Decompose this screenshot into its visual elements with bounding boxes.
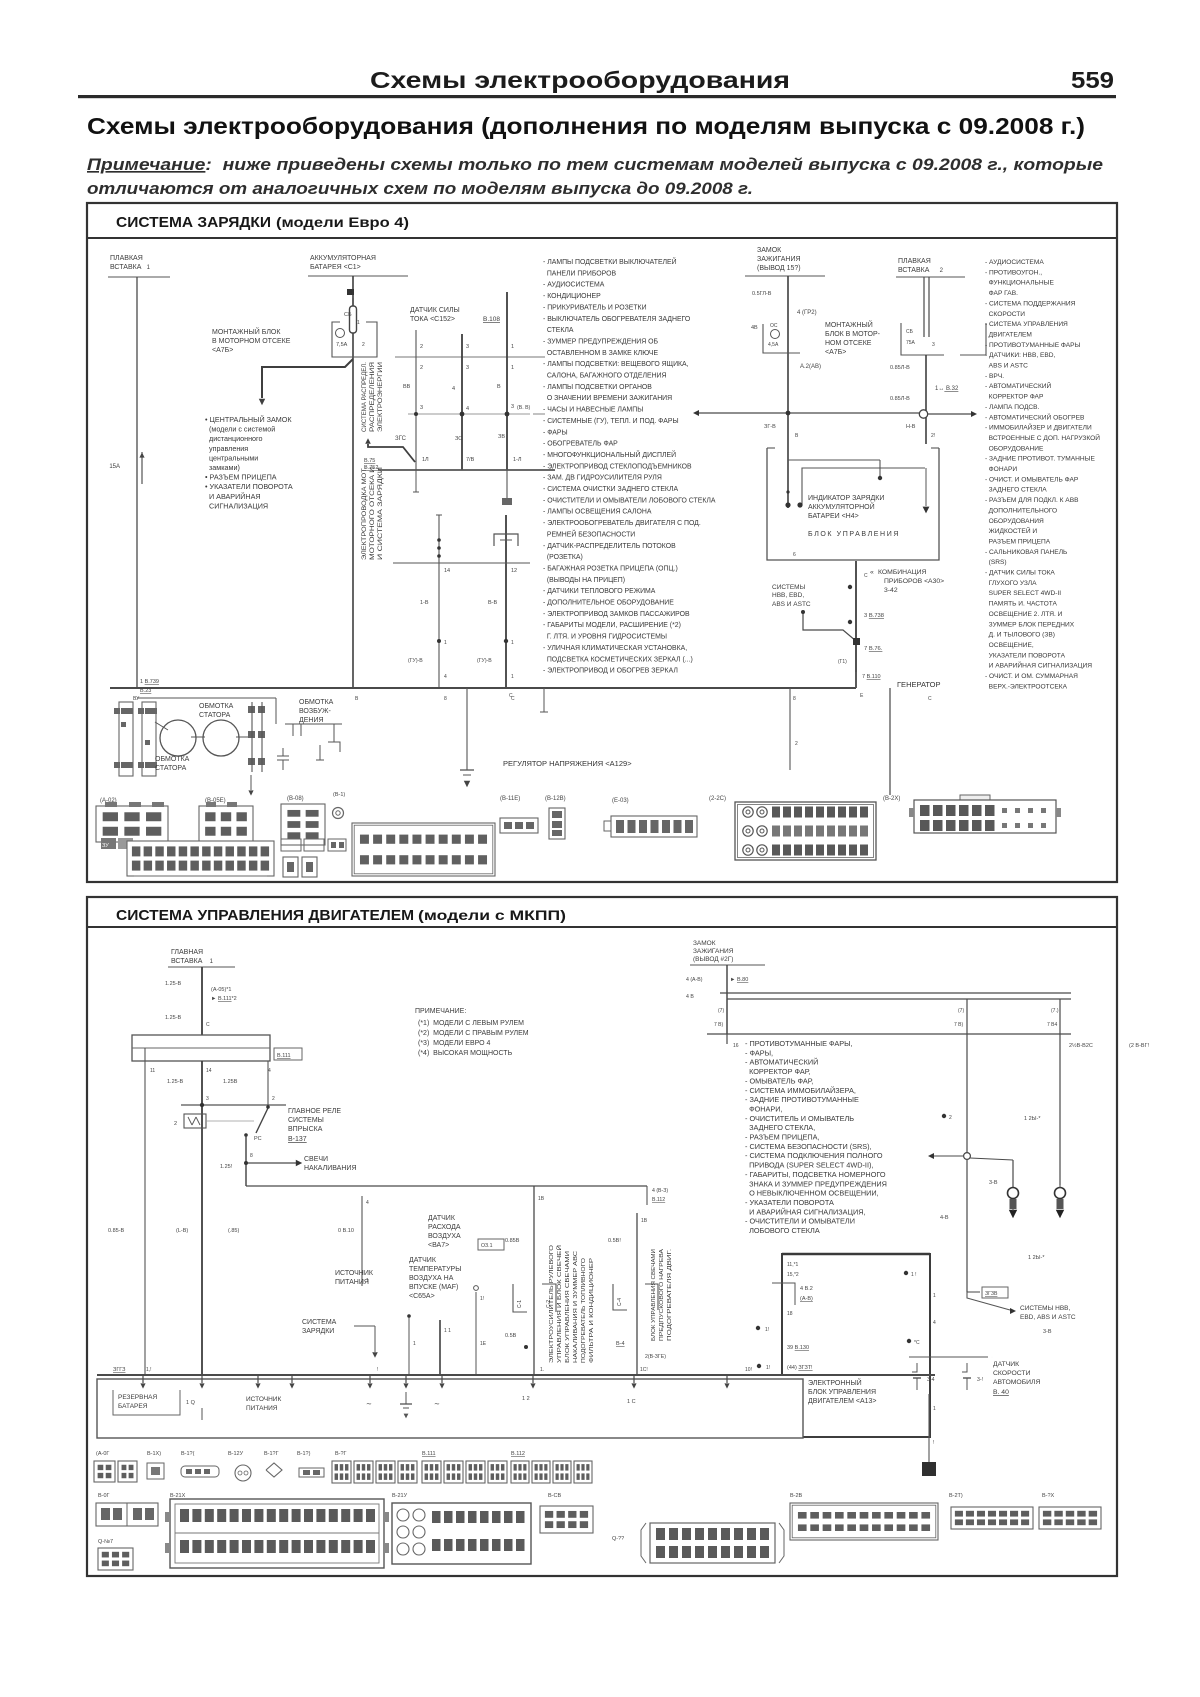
- svg-text:- ПРОТИВОУГОН.,: - ПРОТИВОУГОН.,: [985, 269, 1042, 276]
- svg-text:- РАЗЪЕМ ПРИЦЕПА,: - РАЗЪЕМ ПРИЦЕПА,: [745, 1133, 820, 1142]
- svg-text:- ПРИКУРИВАТЕЛЬ И РОЗЕТКИ: - ПРИКУРИВАТЕЛЬ И РОЗЕТКИ: [543, 304, 647, 311]
- power source stub: [361, 1196, 363, 1286]
- svg-text:3-В: 3-В: [989, 1180, 998, 1186]
- svg-text:(7): (7): [958, 1008, 964, 1014]
- svg-text:(*4) ВЫСОКАЯ МОЩНОСТЬ: (*4) ВЫСОКАЯ МОЩНОСТЬ: [418, 1050, 513, 1057]
- svg-text:ЗАДНЕГО СТЕКЛА: ЗАДНЕГО СТЕКЛА: [985, 487, 1047, 494]
- svg-text:- ЭЛЕКТРООБОГРЕВАТЕЛЬ ДВИГАТЕЛ: - ЭЛЕКТРООБОГРЕВАТЕЛЬ ДВИГАТЕЛЯ С ПОД.: [543, 520, 701, 527]
- svg-text:4,5А: 4,5А: [768, 342, 779, 348]
- svg-text:(В-12В): (В-12В): [545, 796, 566, 802]
- svg-text:ОБМОТКА: ОБМОТКА: [155, 756, 190, 763]
- svg-text:3-42: 3-42: [884, 587, 898, 594]
- svg-text:ЗГЗВ: ЗГЗВ: [985, 1291, 998, 1297]
- svg-text:ОБОРУДОВАНИЕ: ОБОРУДОВАНИЕ: [985, 445, 1044, 452]
- ground stub left generator: [250, 775, 252, 790]
- svg-text:3 В.738: 3 В.738: [864, 613, 884, 619]
- mounting block bracket left: [332, 322, 344, 357]
- svg-text:ЗГ-В: ЗГ-В: [764, 424, 776, 430]
- svg-text:- ОЧИСТ. И ОМ. СУММАРНАЯ: - ОЧИСТ. И ОМ. СУММАРНАЯ: [985, 673, 1078, 680]
- row2 connector E2: [540, 1506, 593, 1533]
- sensor grid top bus: [395, 356, 545, 358]
- svg-text:КОРРЕКТОР ФАР: КОРРЕКТОР ФАР: [985, 394, 1044, 401]
- svg-text:SUPER SELECT 4WD-II: SUPER SELECT 4WD-II: [985, 590, 1061, 597]
- svg-text:ВЕРХ.-ЭЛЕКТРООТСЕКА: ВЕРХ.-ЭЛЕКТРООТСЕКА: [985, 683, 1068, 690]
- svg-text:СВЕЧИ: СВЕЧИ: [304, 1156, 328, 1163]
- svg-text:ФОНАРИ: ФОНАРИ: [985, 466, 1017, 473]
- svg-text:- ВЫКЛЮЧАТЕЛЬ ОБОГРЕВАТЕЛЯ ЗАД: - ВЫКЛЮЧАТЕЛЬ ОБОГРЕВАТЕЛЯ ЗАДНЕГО: [543, 316, 691, 323]
- svg-text:СИСТЕМЫ: СИСТЕМЫ: [288, 1117, 324, 1124]
- connector small pair 1: [281, 839, 301, 851]
- row2 connector B2: [98, 1548, 133, 1570]
- svg-text:0.85Л-В: 0.85Л-В: [890, 365, 910, 371]
- diode symbol: [333, 724, 335, 742]
- svg-text:В-В: В-В: [488, 600, 498, 606]
- wire x967 lower segment: [966, 1159, 968, 1292]
- svg-text:СКОРОСТИ: СКОРОСТИ: [985, 311, 1025, 318]
- svg-text:ПИТАНИЯ: ПИТАНИЯ: [246, 1405, 278, 1412]
- srs branch arrow: [934, 1155, 963, 1157]
- svg-text:ОСТАВЛЕННОМ В ЗАМКЕ КЛЮЧЕ: ОСТАВЛЕННОМ В ЗАМКЕ КЛЮЧЕ: [543, 350, 659, 357]
- svg-text:- ОЧИСТИТЕЛЬ И ОМЫВАТЕЛЬ: - ОЧИСТИТЕЛЬ И ОМЫВАТЕЛЬ: [745, 1114, 854, 1123]
- charging system title separator: [87, 237, 1117, 239]
- wire main vertical to relay: [201, 1061, 203, 1375]
- svg-text:- АУДИОСИСТЕМА: - АУДИОСИСТЕМА: [543, 282, 605, 289]
- svg-text:С: С: [509, 693, 513, 699]
- svg-text:*С: *С: [914, 1340, 920, 1346]
- row1 connector f: [266, 1463, 282, 1477]
- svg-text:СТЕКЛА: СТЕКЛА: [543, 327, 574, 334]
- connector big mid: [352, 823, 495, 876]
- svg-text:(модели Евро 4): (модели Евро 4): [276, 215, 409, 230]
- svg-text:БАТАРЕИ <Н4>: БАТАРЕИ <Н4>: [808, 513, 859, 520]
- svg-text:В.112: В.112: [511, 1451, 525, 1457]
- svg-text:- ПРОТИВОТУМАННЫЕ ФАРЫ,: - ПРОТИВОТУМАННЫЕ ФАРЫ,: [745, 1039, 853, 1048]
- svg-text:АВТОМОБИЛЯ: АВТОМОБИЛЯ: [993, 1379, 1041, 1386]
- lower v2 resistor bracket: [494, 534, 518, 546]
- svg-text:ГЛАВНОЕ РЕЛЕ: ГЛАВНОЕ РЕЛЕ: [288, 1108, 341, 1115]
- fusebox right tag: [274, 1048, 302, 1060]
- ecu inner dots right: [904, 1271, 908, 1275]
- svg-text:БЛОК УПРАВЛЕНИЯ СВЕЧАМИ: БЛОК УПРАВЛЕНИЯ СВЕЧАМИ: [651, 1249, 657, 1341]
- svg-text:- СИСТЕМА ИММОБИЛАЙЗЕРА,: - СИСТЕМА ИММОБИЛАЙЗЕРА,: [745, 1086, 856, 1095]
- backup battery label: [113, 1390, 180, 1415]
- svg-text:БЛОК УПРАВЛЕНИЯ: БЛОК УПРАВЛЕНИЯ: [808, 531, 900, 538]
- svg-text:УПРАВЛЕНИЯ И БЛОК СВЕЧЕЙ: УПРАВЛЕНИЯ И БЛОК СВЕЧЕЙ: [555, 1245, 563, 1363]
- speed sensor T2: [962, 1363, 967, 1372]
- svg-text:1: 1: [933, 1406, 936, 1412]
- svg-text:3: 3: [206, 1096, 209, 1102]
- svg-text:∼: ∼: [434, 1401, 440, 1408]
- svg-text:ЗНАКА И ЗУММЕР ПРЕДУПРЕЖДЕНИЯ: ЗНАКА И ЗУММЕР ПРЕДУПРЕЖДЕНИЯ: [745, 1179, 887, 1188]
- svg-text:НОМ ОТСЕКЕ: НОМ ОТСЕКЕ: [825, 340, 872, 347]
- svg-text:- УКАЗАТЕЛИ ПОВОРОТА: - УКАЗАТЕЛИ ПОВОРОТА: [745, 1198, 834, 1207]
- svg-text:В.752: В.752: [364, 465, 378, 471]
- consumer list right column: [985, 259, 1100, 690]
- svg-text:А.2(АВ): А.2(АВ): [800, 364, 821, 370]
- svg-text:В-1?Г: В-1?Г: [264, 1451, 279, 1457]
- rail drop stubs with tags: [726, 999, 728, 1034]
- svg-text:1: 1: [208, 959, 214, 965]
- svg-text:- ГАБАРИТЫ, ПОДСВЕТКА НОМЕРНОГ: - ГАБАРИТЫ, ПОДСВЕТКА НОМЕРНОГО: [745, 1170, 886, 1179]
- wire sensor v2: [461, 334, 463, 470]
- svg-text:4В: 4В: [751, 325, 758, 331]
- svg-text:БАТАРЕЯ <С1>: БАТАРЕЯ <С1>: [310, 264, 361, 271]
- svg-text:(А-05)*1: (А-05)*1: [211, 987, 231, 993]
- stub below grid v1: [415, 470, 417, 492]
- svg-text:- ДАТЧИКИ ТЕПЛОВОГО РЕЖИМА: - ДАТЧИКИ ТЕПЛОВОГО РЕЖИМА: [543, 588, 656, 595]
- svg-text:ЗУММЕР БЛОК ПЕРЕДНИХ: ЗУММЕР БЛОК ПЕРЕДНИХ: [985, 621, 1075, 628]
- excitation winding symbol: [285, 723, 342, 725]
- wire battery vertical: [352, 276, 354, 688]
- wire drop 967 continues: [991, 1356, 993, 1358]
- field circuit wires: [275, 698, 277, 724]
- svg-text:1!: 1!: [766, 1365, 770, 1371]
- svg-text:БЛОК В МОТОР-: БЛОК В МОТОР-: [825, 331, 881, 338]
- ignition fuse symbol: [771, 330, 780, 339]
- svg-text:управления: управления: [205, 444, 248, 453]
- wire meter main vertical: [855, 561, 857, 688]
- row1 group j: [511, 1461, 529, 1483]
- svg-text:1: 1: [933, 1293, 936, 1299]
- svg-text:КОМБИНАЦИЯ: КОМБИНАЦИЯ: [878, 569, 927, 576]
- svg-text:1-В: 1-В: [420, 600, 429, 606]
- svg-text:12: 12: [511, 568, 517, 574]
- ignition fuse bracket left: [763, 324, 800, 353]
- svg-text:- ГАБАРИТЫ МОДЕЛИ, РАСШИРЕНИЕ: - ГАБАРИТЫ МОДЕЛИ, РАСШИРЕНИЕ (*2): [543, 622, 681, 629]
- svg-text:15,*2: 15,*2: [787, 1272, 799, 1278]
- svg-text:ДАТЧИК СИЛЫ: ДАТЧИК СИЛЫ: [410, 307, 460, 314]
- svg-text:14: 14: [206, 1068, 212, 1074]
- svg-text:11: 11: [150, 1068, 155, 1074]
- svg-text:(В-08): (В-08): [287, 796, 304, 802]
- svg-text:(*1) МОДЕЛИ С ЛЕВЫМ РУЛЕМ: (*1) МОДЕЛИ С ЛЕВЫМ РУЛЕМ: [418, 1020, 524, 1027]
- svg-text:2: 2: [362, 342, 365, 348]
- relay output horizontal rail: [246, 1185, 647, 1187]
- svg-text:18: 18: [787, 1311, 793, 1317]
- svg-text:4: 4: [933, 1320, 936, 1326]
- svg-text:3-В: 3-В: [1043, 1329, 1052, 1335]
- connector wide right: [960, 795, 990, 802]
- ecu outline: [782, 1254, 930, 1437]
- svg-text:ДВИГАТЕЛЕМ <А13>: ДВИГАТЕЛЕМ <А13>: [808, 1398, 877, 1405]
- svg-text:► В.80: ► В.80: [730, 977, 748, 983]
- svg-text:БЛОК УПРАВЛЕНИЯ: БЛОК УПРАВЛЕНИЯ: [808, 1389, 876, 1396]
- generator connector left 2: [142, 702, 156, 776]
- svg-text:В. 40: В. 40: [993, 1389, 1009, 1396]
- junction battery node: [347, 289, 354, 295]
- svg-text:ЗАЖИГАНИЯ: ЗАЖИГАНИЯ: [693, 948, 734, 955]
- fuse arrow symbol: [141, 452, 143, 484]
- svg-text:- ЭЛЕКТРОПРИВОД СТЕКЛОПОДЪЕМНИ: - ЭЛЕКТРОПРИВОД СТЕКЛОПОДЪЕМНИКОВ: [543, 463, 692, 470]
- connector long strip: [127, 841, 274, 876]
- wire left feed to bus: [144, 1048, 146, 1375]
- svg-text:4 (ГР2): 4 (ГР2): [797, 310, 817, 316]
- svg-text:(*3) МОДЕЛИ ЕВРО 4: (*3) МОДЕЛИ ЕВРО 4: [418, 1040, 491, 1047]
- ground symbol below bus: [466, 688, 468, 770]
- svg-text:1В: 1В: [641, 1218, 648, 1224]
- wire sensor v1: [415, 330, 417, 470]
- svg-text:8: 8: [250, 1153, 253, 1159]
- svg-text:ФИЛЬТРА И КОНДИЦИОНЕР: ФИЛЬТРА И КОНДИЦИОНЕР: [589, 1258, 595, 1363]
- svg-text:10!: 10!: [745, 1367, 752, 1373]
- svg-text:- ОЧИСТИТЕЛИ И ОМЫВАТЕЛИ: - ОЧИСТИТЕЛИ И ОМЫВАТЕЛИ: [745, 1217, 855, 1226]
- svg-text:ВУ: ВУ: [133, 696, 140, 702]
- svg-text:ПАНЕЛИ ПРИБОРОВ: ПАНЕЛИ ПРИБОРОВ: [543, 270, 616, 277]
- svg-text:МОТОРНОГО ОТСЕКА И: МОТОРНОГО ОТСЕКА И: [369, 467, 376, 560]
- row2 connector F2: [641, 1523, 784, 1563]
- svg-text:2½В-В2С: 2½В-В2С: [1069, 1042, 1093, 1049]
- wire lower v2: [505, 515, 507, 688]
- wire sensor v3: [506, 292, 508, 470]
- svg-text:В.112: В.112: [652, 1197, 665, 1203]
- svg-text:В-4: В-4: [616, 1341, 625, 1347]
- svg-text:АККУМУЛЯТОРНАЯ: АККУМУЛЯТОРНАЯ: [310, 255, 376, 262]
- svg-text:- СИСТЕМА УПРАВЛЕНИЯ: - СИСТЕМА УПРАВЛЕНИЯ: [985, 321, 1068, 328]
- svg-text:ЗАРЯДКИ: ЗАРЯДКИ: [302, 1328, 334, 1335]
- svg-text:0.85Л-В: 0.85Л-В: [890, 396, 910, 402]
- svg-text:1Е: 1Е: [480, 1341, 487, 1347]
- sensor bracket 1: [513, 1284, 527, 1312]
- svg-text:1Л: 1Л: [422, 457, 429, 463]
- stub below grid v3 with terminal: [506, 470, 508, 498]
- wire drop x967: [966, 1034, 968, 1150]
- stator winding circle 1: [160, 720, 196, 756]
- right fuse bracket: [901, 323, 944, 355]
- svg-text:2: 2: [272, 1096, 275, 1102]
- svg-text:дистанционного: дистанционного: [205, 434, 263, 443]
- svg-text:- СИСТЕМА БЕЗОПАСНОСТИ (SRS),: - СИСТЕМА БЕЗОПАСНОСТИ (SRS),: [745, 1142, 872, 1151]
- svg-text:ИНДИКАТОР ЗАРЯДКИ: ИНДИКАТОР ЗАРЯДКИ: [808, 495, 884, 502]
- svg-text:(В-2Х): (В-2Х): [883, 796, 900, 802]
- svg-text:ИСТОЧНИК: ИСТОЧНИК: [246, 1396, 281, 1403]
- row2 connector I2: [1039, 1507, 1101, 1529]
- row1 connector a: [94, 1461, 115, 1482]
- svg-text:2: 2: [795, 741, 798, 747]
- svg-text:ЕВD, АВS И АSТС: ЕВD, АВS И АSТС: [1020, 1314, 1076, 1321]
- speed sensor rail: [909, 1356, 988, 1358]
- svg-text:4 В: 4 В: [686, 994, 694, 1000]
- svg-text:ВСТАВКА: ВСТАВКА: [110, 264, 142, 271]
- row1 group i: [422, 1461, 441, 1483]
- svg-text:2: 2: [420, 365, 423, 371]
- svg-text:ЗУ: ЗУ: [102, 843, 109, 849]
- svg-text:ДЕНИЯ: ДЕНИЯ: [299, 717, 324, 724]
- capacitor symbol: [277, 755, 289, 757]
- regulator sense stub: [543, 688, 545, 712]
- svg-text:В МОТОРНОМ ОТСЕКЕ: В МОТОРНОМ ОТСЕКЕ: [212, 338, 291, 345]
- generator connector left 1: [119, 702, 133, 776]
- svg-text:2: 2: [949, 1115, 952, 1121]
- svg-text:РС: РС: [254, 1136, 262, 1142]
- svg-text:ПАМЯТЬ И. ЧАСТОТА: ПАМЯТЬ И. ЧАСТОТА: [985, 601, 1058, 608]
- connector tall B-12: [549, 808, 565, 839]
- svg-text:СИГНАЛИЗАЦИЯ: СИГНАЛИЗАЦИЯ: [205, 501, 268, 510]
- winding connection lines: [155, 722, 168, 730]
- svg-text:В-21Х: В-21Х: [170, 1493, 186, 1499]
- svg-text:1В: 1В: [538, 1196, 545, 1202]
- svg-text:2: 2: [174, 1121, 177, 1127]
- svg-text:ЭЛЕКТРОЭНЕРГИИ: ЭЛЕКТРОЭНЕРГИИ: [377, 362, 384, 432]
- svg-text:2: 2: [420, 344, 423, 350]
- svg-text:ФУНКЦИОНАЛЬНЫЕ: ФУНКЦИОНАЛЬНЫЕ: [985, 280, 1054, 287]
- svg-text:СТАТОРА: СТАТОРА: [199, 712, 231, 719]
- indicator arrow: [923, 507, 930, 514]
- svg-text:НАКАЛИВАНИЯ: НАКАЛИВАНИЯ: [304, 1165, 357, 1172]
- svg-text:(В-11Е): (В-11Е): [500, 796, 520, 802]
- svg-text:1 2: 1 2: [522, 1396, 530, 1402]
- svg-text:- СИСТЕМА ПОДДЕРЖАНИЯ: - СИСТЕМА ПОДДЕРЖАНИЯ: [985, 300, 1076, 307]
- connector flat E-03: [611, 816, 697, 837]
- ignition double rail: [720, 992, 1071, 994]
- svg-text:(7.): (7.): [1051, 1008, 1059, 1014]
- wire speed sensor down: [928, 1394, 930, 1462]
- wire relay output: [245, 1135, 247, 1186]
- lower v1 switch dots: [436, 514, 442, 516]
- generator pins mid: [248, 706, 255, 713]
- svg-text:- СИСТЕМА ПОДКЛЮЧЕНИЯ ПОЛНОГО: - СИСТЕМА ПОДКЛЮЧЕНИЯ ПОЛНОГО: [745, 1151, 883, 1160]
- svg-text:(SRS): (SRS): [985, 559, 1007, 566]
- wire battery lead: [308, 275, 408, 277]
- svg-text:1: 1: [511, 344, 514, 350]
- svg-text:ТЕМПЕРАТУРЫ: ТЕМПЕРАТУРЫ: [409, 1266, 461, 1273]
- svg-text:В.108: В.108: [483, 316, 500, 323]
- svg-text:1.25!: 1.25!: [220, 1164, 233, 1170]
- svg-text:замками): замками): [205, 463, 240, 472]
- fusebox strip: [132, 1035, 270, 1061]
- svg-text:СИСТЕМА УПРАВЛЕНИЯ ДВИГАТЕЛЕМ: СИСТЕМА УПРАВЛЕНИЯ ДВИГАТЕЛЕМ: [116, 907, 414, 924]
- svg-text:ВОЗДУХА: ВОЗДУХА: [428, 1233, 461, 1240]
- svg-text:559: 559: [1071, 67, 1114, 93]
- svg-text:САЛОНА, БАГАЖНОГО ОТДЕЛЕНИЯ: САЛОНА, БАГАЖНОГО ОТДЕЛЕНИЯ: [543, 373, 666, 380]
- junction diamond x967: [942, 1114, 946, 1118]
- svg-text:СИСТЕМА: СИСТЕМА: [302, 1319, 337, 1326]
- svg-text:ПРИБОРОВ <А30>: ПРИБОРОВ <А30>: [884, 578, 944, 585]
- svg-text:ГЛУХОГО УЗЛА: ГЛУХОГО УЗЛА: [985, 580, 1037, 587]
- svg-text:• ЦЕНТРАЛЬНЫЙ ЗАМОК: • ЦЕНТРАЛЬНЫЙ ЗАМОК: [205, 415, 292, 424]
- svg-text:7/В: 7/В: [466, 457, 475, 463]
- svg-text:В-?Х: В-?Х: [1042, 1493, 1055, 1499]
- svg-text:- ЭЛЕКТРОПРИВОД И ОБОГРЕВ ЗЕРК: - ЭЛЕКТРОПРИВОД И ОБОГРЕВ ЗЕРКАЛ: [543, 668, 678, 675]
- svg-text:(А-В): (А-В): [800, 1296, 813, 1302]
- svg-text:(2 В-ВГ!: (2 В-ВГ!: [1129, 1043, 1150, 1049]
- svg-text:РЕЗЕРВНАЯ: РЕЗЕРВНАЯ: [118, 1394, 157, 1401]
- svg-text:НВВ, ЕВD,: НВВ, ЕВD,: [772, 592, 804, 599]
- rail corner bracket: [646, 1186, 648, 1205]
- charge system arrow: [354, 1325, 375, 1327]
- relay contact: [256, 1108, 268, 1133]
- mounting block bracket right: [362, 322, 377, 357]
- svg-text:УКАЗАТЕЛИ ПОВОРОТА: УКАЗАТЕЛИ ПОВОРОТА: [985, 652, 1066, 659]
- svg-text:4 В.2: 4 В.2: [800, 1286, 813, 1292]
- svg-text:СКОРОСТИ: СКОРОСТИ: [993, 1370, 1031, 1377]
- svg-text:«: «: [870, 569, 874, 576]
- svg-text:ОСВЕЩЕНИЕ 2. ЛТЯ. И: ОСВЕЩЕНИЕ 2. ЛТЯ. И: [985, 611, 1063, 618]
- svg-text:1.25-В: 1.25-В: [167, 1079, 184, 1085]
- svg-text:!: !: [377, 1367, 378, 1373]
- wire ignition vertical box2: [726, 965, 728, 1034]
- svg-text:- САЛЬНИКОВАЯ ПАНЕЛЬ: - САЛЬНИКОВАЯ ПАНЕЛЬ: [985, 549, 1067, 556]
- svg-text:1: 1: [511, 365, 514, 371]
- connector B-08: [281, 804, 325, 845]
- wire left battery feed vertical: [136, 277, 138, 688]
- svg-text:АККУМУЛЯТОРНОЙ: АККУМУЛЯТОРНОЙ: [808, 502, 875, 511]
- svg-text:15А: 15А: [109, 464, 120, 470]
- svg-text:2(В-ЗГЕ): 2(В-ЗГЕ): [645, 1354, 666, 1360]
- svg-text:- ДАТЧИКИ: НВВ, ЕВD,: - ДАТЧИКИ: НВВ, ЕВD,: [985, 352, 1056, 359]
- engine control title separator: [87, 926, 1117, 928]
- svg-text:7 В): 7 В): [954, 1022, 964, 1028]
- consumer list middle column: [543, 257, 716, 675]
- sensor grid bottom bus: [378, 469, 555, 471]
- svg-text:ГЛАВНАЯ: ГЛАВНАЯ: [171, 949, 203, 956]
- svg-text:И АВАРИЙНАЯ СИГНАЛИЗАЦИЯ,: И АВАРИЙНАЯ СИГНАЛИЗАЦИЯ,: [745, 1207, 866, 1216]
- svg-text:11,*1: 11,*1: [787, 1262, 799, 1268]
- svg-text:!: !: [933, 1440, 934, 1446]
- svg-text:1 1: 1 1: [444, 1328, 451, 1334]
- svg-text:0 В.10: 0 В.10: [338, 1228, 354, 1234]
- svg-text:1-Л: 1-Л: [513, 457, 522, 463]
- svg-text:АВS И АSТС: АВS И АSТС: [985, 363, 1028, 370]
- connector black square: [922, 1462, 936, 1476]
- row1 connector b: [118, 1461, 137, 1482]
- connector B-05: [199, 806, 253, 842]
- svg-text:РАЗЪЕМ ПРИЦЕПА: РАЗЪЕМ ПРИЦЕПА: [985, 538, 1051, 545]
- svg-text:(*2) МОДЕЛИ С ПРАВЫМ РУЛЕМ: (*2) МОДЕЛИ С ПРАВЫМ РУЛЕМ: [418, 1030, 529, 1037]
- svg-text:- ЛАМПЫ ОСВЕЩЕНИЯ САЛОНА: - ЛАМПЫ ОСВЕЩЕНИЯ САЛОНА: [543, 509, 652, 516]
- svg-text:В-?Г: В-?Г: [335, 1451, 347, 1457]
- svg-text:4 (А-В): 4 (А-В): [686, 977, 703, 983]
- svg-text:(В. В): (В. В): [517, 405, 531, 411]
- svg-text:(7): (7): [718, 1008, 724, 1014]
- svg-text:(L-В): (L-В): [176, 1228, 188, 1234]
- svg-text:1 2Ы-*: 1 2Ы-*: [1028, 1255, 1045, 1261]
- svg-text:Q-№7: Q-№7: [98, 1539, 113, 1545]
- svg-text:РЕМНЕЙ БЕЗОПАСНОСТИ: РЕМНЕЙ БЕЗОПАСНОСТИ: [543, 529, 635, 538]
- svg-text:В-21У: В-21У: [392, 1493, 408, 1499]
- svg-text:1,!: 1,!: [146, 1367, 152, 1373]
- svg-text:0.5ГЛ-В: 0.5ГЛ-В: [752, 291, 772, 297]
- svg-text:ОС: ОС: [770, 323, 778, 329]
- svg-text:8: 8: [444, 696, 447, 702]
- srs branch ring: [966, 1150, 968, 1153]
- abs系统 branch: [967, 1291, 980, 1293]
- svg-text:ДВИГАТЕЛЕМ: ДВИГАТЕЛЕМ: [985, 331, 1032, 338]
- svg-text:<А7Б>: <А7Б>: [825, 349, 846, 356]
- svg-text:ЗГГЗ: ЗГГЗ: [113, 1367, 126, 1373]
- wire arrow to distribution system: [368, 444, 415, 462]
- svg-text:7 В.76.: 7 В.76.: [864, 646, 883, 652]
- svg-text:<А7Б>: <А7Б>: [212, 347, 233, 354]
- main relay crossbar: [181, 1104, 286, 1106]
- svg-text:1.: 1.: [540, 1367, 544, 1373]
- svg-text:ЗАМОК: ЗАМОК: [757, 247, 782, 254]
- tiny terminal labels: [101, 838, 116, 849]
- svg-text:- ФАРЫ,: - ФАРЫ,: [745, 1048, 773, 1057]
- junction dots outside ecu: [756, 1326, 760, 1330]
- svg-text:Схемы электрооборудования (доп: Схемы электрооборудования (дополнения по…: [87, 113, 1085, 139]
- svg-text:С: С: [864, 573, 868, 579]
- svg-text:ОБОРУДОВАНИЯ: ОБОРУДОВАНИЯ: [985, 518, 1044, 525]
- wire inside control top: [788, 459, 880, 461]
- svg-text:1!: 1!: [480, 1296, 484, 1302]
- ignition single rail: [707, 1033, 1071, 1035]
- svg-text:ДАТЧИК: ДАТЧИК: [409, 1257, 437, 1264]
- svg-text:(44) ЗГЗТ!: (44) ЗГЗТ!: [787, 1365, 813, 1371]
- svg-text:3: 3: [511, 404, 514, 410]
- svg-text:- ПРОТИВОТУМАННЫЕ ФАРЫ: - ПРОТИВОТУМАННЫЕ ФАРЫ: [985, 342, 1081, 349]
- power strip box: [97, 1379, 803, 1438]
- row2 big connector D2: [392, 1503, 531, 1564]
